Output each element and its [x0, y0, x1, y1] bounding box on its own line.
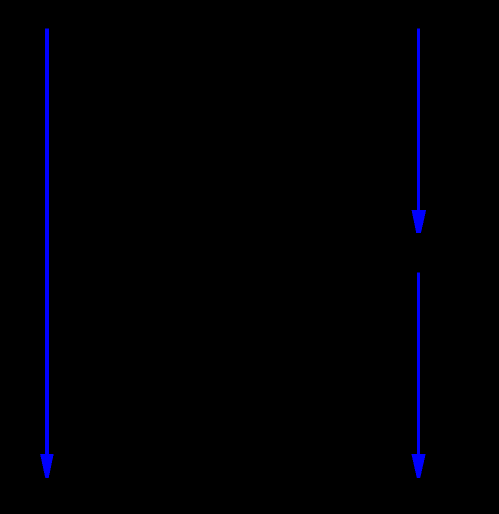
arrow A3 (right lower edge) shaft [417, 273, 420, 456]
arrow A1 (left edge) head [40, 454, 54, 478]
arrow A2 (right upper edge) head [412, 210, 427, 233]
arrow A3 (right lower edge) head [412, 454, 426, 478]
arrow A2 (right upper edge) shaft [417, 28, 420, 212]
arrow A1 (left edge) shaft [45, 29, 49, 456]
